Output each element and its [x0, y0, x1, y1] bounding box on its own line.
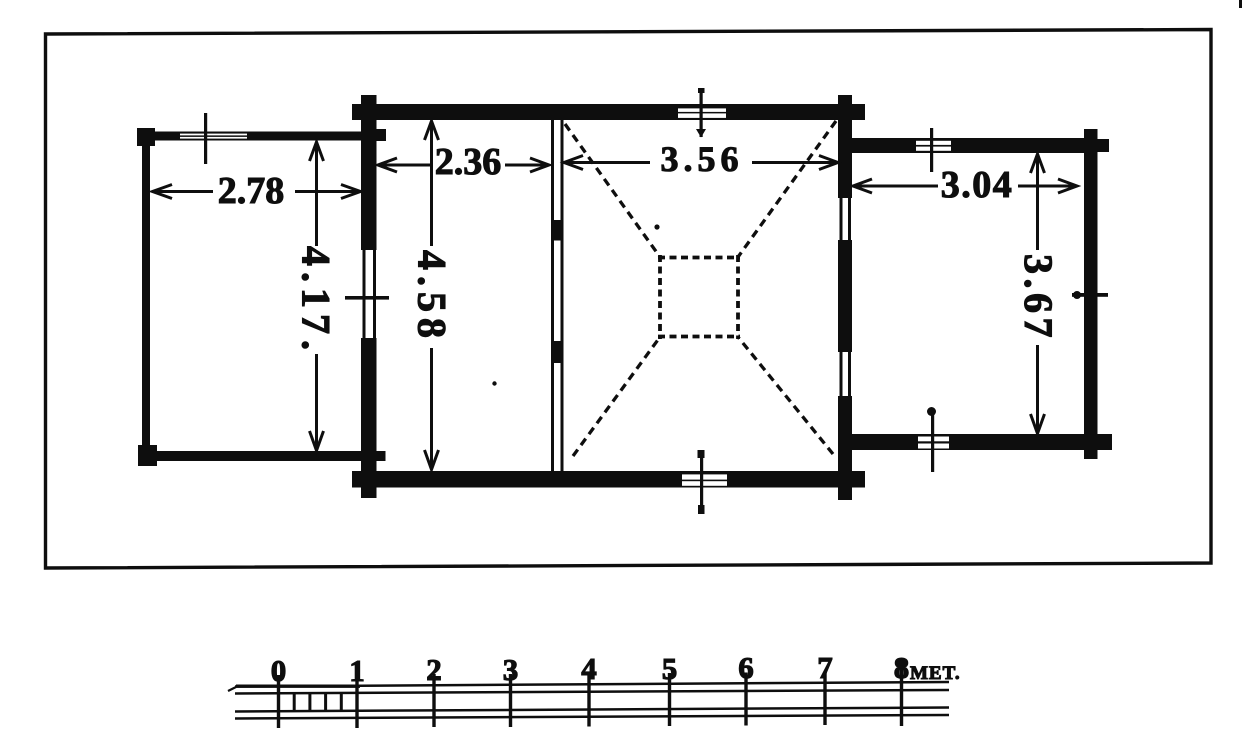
svg-text:3.67: 3.67: [1016, 254, 1061, 342]
svg-text:8: 8: [894, 650, 910, 685]
right room bottom wall right stub: [1097, 434, 1112, 450]
middle room right wall door opening upper: [838, 198, 852, 240]
middle room left wall: [361, 95, 377, 498]
speck dot in middle room: [654, 224, 659, 229]
left room corner block bottom-left: [138, 445, 157, 466]
left room top wall stub right of middle wall: [377, 129, 387, 141]
svg-text:3.04: 3.04: [941, 164, 1014, 206]
svg-text:3: 3: [503, 652, 519, 687]
dimension 2.78 arrow: [152, 185, 361, 199]
border frame: [46, 30, 1212, 569]
dimension 3.04 arrow: [853, 179, 1078, 193]
left room corner block top-left: [137, 128, 155, 146]
dimension 4.58 arrow: [425, 121, 439, 470]
middle room bottom wall: [352, 471, 865, 488]
right room top window tick: [930, 128, 933, 172]
svg-text:7: 7: [817, 650, 833, 685]
svg-text:4.17.: 4.17.: [294, 246, 339, 356]
middle room left wall door opening: [361, 250, 377, 338]
corner speck top-right: [1239, 0, 1242, 8]
svg-text:4.58: 4.58: [410, 250, 455, 344]
left room bottom wall stub right of middle wall: [377, 451, 386, 461]
dashed hip line bottom-left: [573, 337, 660, 456]
dimension 3.56 arrow: [564, 156, 838, 170]
right room bottom wall window: [918, 437, 949, 449]
svg-text:2.36: 2.36: [435, 141, 502, 183]
scale bar thick first-meter edge: [236, 685, 360, 688]
middle room left door tick: [345, 296, 389, 300]
middle room bottom wall window: [682, 474, 727, 485]
svg-text:3.56: 3.56: [661, 139, 744, 179]
svg-text:1: 1: [349, 653, 365, 688]
scale bar tick 1: [355, 675, 358, 728]
dashed hip line bottom-right: [738, 337, 833, 454]
svg-text:2.78: 2.78: [218, 170, 285, 212]
scale bar tick 7: [823, 672, 826, 725]
dimension 3.67 arrow: [1031, 154, 1045, 434]
right room top wall right stub: [1097, 139, 1109, 152]
left room window tick: [204, 113, 207, 164]
left room top wall window: [180, 134, 247, 139]
left room left wall: [142, 131, 150, 464]
svg-text:6: 6: [738, 650, 754, 685]
dimension 4.17 arrow: [310, 142, 324, 451]
dashed hip line top-left: [565, 124, 660, 257]
scale bar tick 3: [509, 674, 512, 727]
middle room right wall: [838, 95, 852, 500]
middle room top window tick: [696, 88, 706, 138]
scale bar tick 5: [668, 673, 671, 726]
speck dot below 4.58: [492, 381, 496, 385]
scale bar tick 8: [900, 660, 903, 726]
middle room bottom window tick: [698, 450, 705, 514]
right room right wall tick: [1072, 291, 1108, 299]
middle room top wall: [352, 104, 865, 120]
svg-text:2: 2: [426, 652, 442, 687]
partition wall lines: [551, 120, 564, 471]
svg-text:MET.: MET.: [910, 663, 961, 684]
dashed ceiling opening square: [658, 255, 740, 339]
right room bottom window tick: [927, 407, 936, 472]
dashed hip line top-right: [738, 121, 836, 257]
middle room top wall window: [678, 108, 726, 118]
scale bar tick 0: [277, 675, 280, 728]
svg-text:0: 0: [271, 653, 287, 688]
partition solid segment lower: [551, 341, 564, 363]
right room top wall: [852, 138, 1097, 153]
left room top wall: [150, 132, 362, 141]
svg-text:4: 4: [581, 651, 597, 686]
right room right wall: [1084, 129, 1098, 459]
scale bar tick 2: [432, 674, 435, 727]
scale bar tick 4: [587, 674, 590, 727]
scale bar subdivision dividers: [294, 694, 341, 712]
svg-text:5: 5: [662, 651, 678, 686]
scale bar horizontal lines: [235, 682, 949, 719]
right room top wall window: [916, 141, 951, 151]
partition solid segment upper: [551, 220, 564, 241]
scale bar tick 6: [744, 673, 747, 726]
dimension 2.36 arrow: [378, 158, 550, 172]
left room bottom wall: [150, 451, 362, 461]
right room bottom wall: [852, 434, 1097, 450]
middle room right wall door opening lower: [838, 352, 852, 396]
scale bar left hook: [228, 687, 236, 691]
